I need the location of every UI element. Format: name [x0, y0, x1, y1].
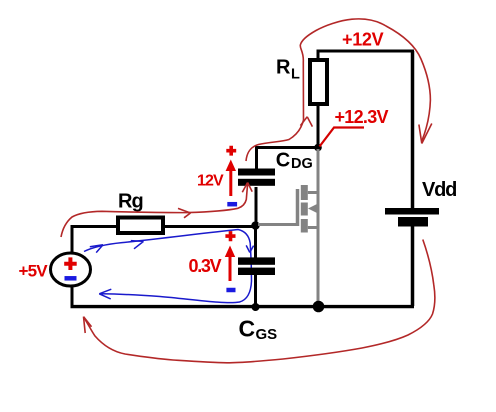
voltage arrow 0.3V: [229, 254, 232, 281]
transistor Q1 drain stub: [308, 191, 318, 194]
node source junction: [313, 301, 325, 313]
transistor Q1 MOSFET gate wire: [258, 223, 298, 226]
label - of 12V: [227, 202, 237, 207]
current arrow red: CDG top via RL over the top to Vdd: [246, 19, 432, 161]
wire right vertical (battery to bottom wire): [411, 227, 415, 307]
svg-text:C: C: [276, 150, 290, 172]
svg-text:R: R: [276, 57, 291, 79]
svg-text:DG: DG: [291, 156, 313, 172]
svg-text:+5V: +5V: [19, 262, 49, 281]
svg-text:+12.3V: +12.3V: [335, 107, 389, 127]
svg-text:GS: GS: [256, 326, 278, 343]
wire vertical (gate node down to CGS): [254, 227, 257, 258]
resistor Rg: [118, 218, 163, 234]
voltage arrow 12V: [229, 168, 232, 196]
svg-text:C: C: [239, 315, 256, 341]
transistor Q1 gate bar: [296, 189, 300, 226]
transistor Q1 channel bars: [301, 185, 308, 200]
label - of 0.3V: [226, 288, 235, 293]
current arrow blue: gate loop forward (source to CGS): [84, 230, 254, 282]
resistor RL: [310, 60, 327, 104]
wire vertical (RL top to top wire): [317, 50, 320, 59]
battery Vdd plates: [385, 208, 439, 215]
wire horizontal (CDG to drain node): [255, 146, 318, 149]
wire top-left horizontal (corner to Rg): [71, 225, 119, 228]
label + of 0.3V: [225, 231, 235, 241]
svg-text:L: L: [291, 67, 300, 83]
label + of 12V: [226, 146, 236, 156]
current arrow red: source up over Rg to CDG: [61, 183, 252, 238]
svg-text:Rg: Rg: [118, 191, 143, 213]
wire bottom horizontal: [71, 305, 415, 308]
node CGS bottom junction: [252, 303, 260, 311]
current arrow red: bottom return sweep Vdd to source: [84, 240, 435, 363]
wire vertical (drain node to RL): [317, 105, 320, 148]
wire vertical (CDG top plate to horizontal): [255, 147, 258, 169]
wire horizontal (Rg to gate node): [165, 225, 256, 228]
wire vertical (gate node up to CDG bottom plate): [255, 187, 258, 225]
wire vertical (CGS bottom to bottom wire): [254, 275, 257, 306]
wire right vertical (top to battery): [411, 51, 415, 208]
wire left vertical (source to top-left corner): [71, 227, 74, 254]
transistor Q1 body arrow: [308, 204, 317, 213]
node gate junction: [251, 221, 259, 229]
transistor Q1 source stub: [308, 226, 318, 229]
voltage source V1: [51, 253, 91, 286]
label + of source: [64, 257, 77, 270]
current arrow blue: gate loop return (CGS to source): [99, 281, 251, 303]
svg-text:0.3V: 0.3V: [189, 256, 222, 276]
wire left vertical (source to bottom wire): [71, 286, 74, 306]
svg-text:Vdd: Vdd: [422, 179, 456, 201]
wire top horizontal: [317, 50, 415, 53]
capacitor CGS: [238, 257, 275, 264]
capacitor CDG: [238, 169, 275, 176]
label - of source: [65, 276, 77, 281]
node drain junction: [314, 144, 322, 152]
transistor Q1 drain/source vertical lead: [317, 149, 320, 305]
svg-text:+12V: +12V: [342, 30, 384, 50]
svg-text:12V: 12V: [197, 173, 224, 190]
